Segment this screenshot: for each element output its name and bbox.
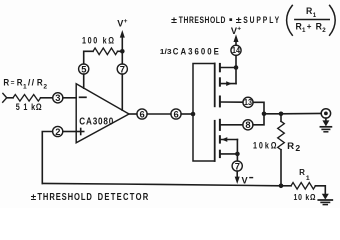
output terminal bbox=[321, 109, 330, 118]
n-MOS channel segments bbox=[219, 120, 221, 130]
svg-text:1: 1 bbox=[302, 27, 306, 34]
formula numerator R1 bbox=[306, 6, 317, 19]
wire substrate up to V+ node bbox=[235, 68, 237, 84]
wire resistor to pin3 bbox=[41, 97, 53, 99]
pin 7 CA3600E bbox=[236, 154, 238, 161]
formula right parenthesis bbox=[330, 5, 336, 35]
pin 3 bbox=[53, 93, 63, 103]
wire R1 to ground bbox=[315, 186, 325, 195]
n-MOS substrate lead with arrow bbox=[221, 139, 238, 141]
svg-text:=: = bbox=[11, 80, 15, 87]
input terminal bbox=[3, 93, 7, 102]
pin 6 CA3600E bbox=[171, 109, 181, 119]
svg-text:±: ± bbox=[171, 15, 177, 25]
wire pin2 feedback down bbox=[42, 132, 52, 184]
p-MOS channel segments bbox=[219, 64, 221, 71]
wire op-amp output to pin 6 bbox=[129, 113, 137, 115]
gate bar n-MOS bbox=[214, 121, 216, 161]
junction node pin7 bbox=[235, 152, 240, 157]
pin 5 bbox=[79, 64, 89, 74]
svg-text:8: 8 bbox=[245, 119, 250, 130]
svg-text:R: R bbox=[37, 77, 43, 87]
wire pin5 up to 100k bbox=[84, 51, 93, 64]
wire 100k to junction bbox=[118, 50, 123, 52]
wire pin5 to triangle bbox=[83, 74, 85, 88]
junction node bottom bbox=[279, 184, 284, 189]
svg-text:13: 13 bbox=[244, 98, 252, 107]
svg-text:+: + bbox=[237, 25, 241, 32]
svg-text:±: ± bbox=[236, 15, 242, 25]
junction node gate box bbox=[191, 112, 196, 117]
p-MOS substrate lead with arrow bbox=[221, 83, 236, 85]
wire pin8 to output node bbox=[253, 114, 264, 125]
label 1/3 CA3600E bbox=[160, 46, 219, 57]
V+ arrow (op-amp supply) bbox=[121, 38, 123, 52]
label threshold detector bbox=[31, 191, 149, 202]
pin 7 op-amp bbox=[117, 64, 127, 74]
svg-text:R: R bbox=[306, 6, 313, 16]
svg-text:2: 2 bbox=[43, 84, 47, 91]
svg-text:1: 1 bbox=[23, 84, 27, 91]
formula fraction bar bbox=[295, 19, 330, 21]
label R1 bbox=[299, 168, 310, 182]
n-MOS source lead bbox=[221, 153, 238, 155]
svg-text:1: 1 bbox=[306, 175, 310, 182]
svg-text:6: 6 bbox=[174, 108, 179, 119]
wire pin6 to gate box bbox=[181, 113, 193, 115]
resistor 51k zigzag bbox=[13, 95, 41, 102]
label 10kOhm R2 bbox=[253, 140, 300, 153]
svg-text:1: 1 bbox=[313, 12, 317, 19]
svg-text:+: + bbox=[124, 18, 128, 25]
pin 14 bbox=[235, 55, 237, 67]
wire pin13 to output node bbox=[253, 102, 264, 114]
svg-text:7: 7 bbox=[120, 63, 125, 74]
formula left parenthesis bbox=[287, 5, 293, 35]
svg-text:V: V bbox=[242, 175, 249, 185]
svg-text:10 kΩ: 10 kΩ bbox=[294, 192, 316, 202]
resistor 100k zigzag bbox=[93, 48, 118, 55]
p-MOS drain lead to pin 13 bbox=[221, 101, 243, 103]
wire to output terminal bbox=[281, 112, 321, 114]
svg-text:5 1 kΩ: 5 1 kΩ bbox=[16, 102, 42, 112]
svg-text:2: 2 bbox=[55, 126, 60, 137]
pin 8 bbox=[243, 120, 253, 130]
svg-text:2: 2 bbox=[295, 143, 300, 153]
resistor R2 vertical zigzag bbox=[280, 114, 282, 122]
svg-text:100 kΩ: 100 kΩ bbox=[82, 36, 114, 46]
svg-text:R: R bbox=[3, 77, 9, 87]
wire between pin6 circles bbox=[147, 113, 171, 115]
pin 2 bbox=[63, 131, 76, 133]
formula denominator R1 + R2 bbox=[296, 21, 327, 34]
wire pin3 to op-amp bbox=[63, 97, 76, 99]
wire to R1 bbox=[281, 185, 291, 187]
wire output node to R2 tap bbox=[264, 113, 281, 115]
junction node at pin7/V+ bbox=[120, 49, 125, 54]
svg-text:THRESHOLD: THRESHOLD bbox=[37, 191, 92, 202]
svg-text:3: 3 bbox=[55, 92, 60, 103]
wire bottom feedback line bbox=[42, 183, 281, 185]
gate bar p-MOS bbox=[214, 64, 216, 107]
V- arrow (negative supply) bbox=[236, 171, 238, 177]
label 5 1 kOhm bbox=[16, 102, 42, 112]
formula threshold equation text bbox=[171, 15, 279, 25]
svg-text:THRESHOLD: THRESHOLD bbox=[179, 15, 226, 25]
svg-text:+: + bbox=[307, 22, 312, 31]
label CA3080 bbox=[79, 116, 113, 127]
junction node pin14 bbox=[234, 65, 239, 70]
p-MOS source lead to V+ bbox=[221, 67, 236, 69]
svg-text:R: R bbox=[287, 140, 294, 151]
svg-text:1/3: 1/3 bbox=[160, 47, 172, 56]
n-MOS drain lead to pin 8 bbox=[221, 124, 243, 126]
wire junction to pin 7 bbox=[121, 51, 123, 64]
svg-text:5: 5 bbox=[81, 63, 86, 74]
pin 13 bbox=[243, 97, 253, 107]
CMOS pair gate box U2 bbox=[193, 64, 215, 162]
wire substrate down to source bbox=[236, 140, 238, 154]
label 10 kOhm R1 bbox=[294, 192, 316, 202]
svg-text:DETECTOR: DETECTOR bbox=[98, 191, 149, 202]
plus sign bbox=[78, 131, 84, 133]
ground at output terminal bbox=[325, 118, 327, 121]
ground at R1 bbox=[322, 194, 329, 200]
wire input to resistor bbox=[7, 97, 13, 99]
minus sign bbox=[80, 96, 86, 98]
pin 6 op-amp bbox=[137, 109, 147, 119]
resistor R1 zigzag bbox=[291, 183, 315, 190]
svg-text:R: R bbox=[299, 168, 305, 177]
label R = R1 // R2 bbox=[3, 77, 47, 90]
svg-text:CA3080: CA3080 bbox=[79, 116, 113, 127]
svg-text:10kΩ: 10kΩ bbox=[253, 141, 277, 151]
junction node output merge bbox=[262, 112, 267, 117]
label 100 kOhm bbox=[82, 36, 114, 46]
op-amp U1 triangle CA3080 bbox=[76, 84, 129, 143]
svg-text:14: 14 bbox=[232, 46, 240, 55]
svg-text:6: 6 bbox=[140, 108, 145, 119]
svg-text:7: 7 bbox=[235, 160, 240, 171]
svg-text:2: 2 bbox=[322, 27, 326, 34]
wire pin7 to triangle bbox=[121, 74, 123, 110]
svg-text:±: ± bbox=[31, 192, 37, 202]
V+ arrow (CA3600E supply) bbox=[235, 42, 237, 45]
junction node R2 tap bbox=[279, 112, 284, 117]
